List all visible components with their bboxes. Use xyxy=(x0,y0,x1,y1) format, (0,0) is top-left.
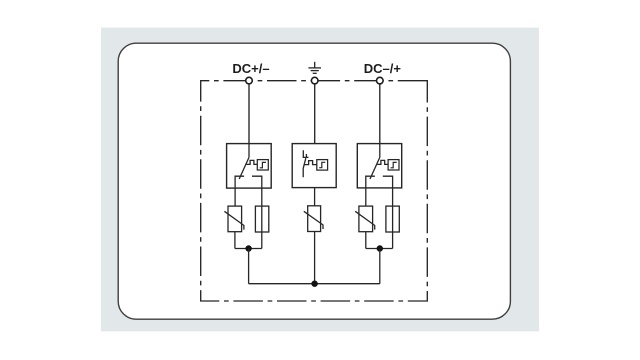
module3 signal box xyxy=(388,160,399,170)
module1 signal box xyxy=(257,160,268,170)
module2 contact fork xyxy=(303,150,308,157)
module3 right contact xyxy=(383,176,393,206)
wire module3 to bus xyxy=(379,249,381,284)
node module1 xyxy=(245,245,251,251)
svg-text:DC+/–: DC+/– xyxy=(232,61,269,76)
earth symbol xyxy=(308,62,321,74)
module1 switch wire xyxy=(248,144,250,158)
wire terminal1 to module1 xyxy=(248,84,250,144)
wire below RV3 xyxy=(365,232,367,249)
module3 signal step glyph xyxy=(391,162,397,167)
varistor RV1 xyxy=(224,206,244,248)
module3 switch blade xyxy=(370,157,380,179)
module3 switch wire xyxy=(379,144,381,158)
module1 right contact xyxy=(252,176,262,206)
module2 signal step glyph xyxy=(319,162,325,167)
wire module1 to bus xyxy=(248,249,250,284)
module1 thermal step link xyxy=(246,160,257,164)
wire below RV1 xyxy=(234,232,236,249)
module1 left contact xyxy=(235,176,244,206)
varistor RV3 xyxy=(355,206,375,248)
wire terminal2 to module2 xyxy=(314,84,316,144)
module1 switch blade xyxy=(239,157,249,179)
module2 disconnector box xyxy=(292,144,336,188)
module1 signal step glyph xyxy=(260,162,266,167)
module3 left contact xyxy=(366,176,375,206)
module3 thermal step link xyxy=(377,160,388,164)
figure background band xyxy=(101,28,539,332)
terminal earth xyxy=(311,77,318,84)
module2 signal box xyxy=(317,160,328,171)
svg-text:DC–/+: DC–/+ xyxy=(364,61,402,76)
module1 disconnector box xyxy=(227,144,272,189)
node bus center xyxy=(311,281,317,287)
SPD boundary dash-dot rectangle xyxy=(201,81,428,301)
module2 switch blade xyxy=(303,158,306,177)
module3 disconnector box xyxy=(357,144,401,188)
varistor RV2 xyxy=(304,188,323,284)
fuse F1 xyxy=(255,206,268,248)
wire terminal3 to module3 xyxy=(379,84,381,144)
node module3 xyxy=(377,245,383,251)
junction bar module1 xyxy=(235,248,262,250)
terminal DC-/+ xyxy=(377,77,384,84)
terminal DC+/- xyxy=(246,77,253,84)
wire RV2 to bus xyxy=(314,232,316,284)
fuse F2 xyxy=(386,206,399,248)
device outline rounded box xyxy=(118,43,510,319)
bottom bus wire xyxy=(249,283,380,285)
module2 thermal step link xyxy=(304,161,317,165)
junction bar module3 xyxy=(366,248,393,250)
